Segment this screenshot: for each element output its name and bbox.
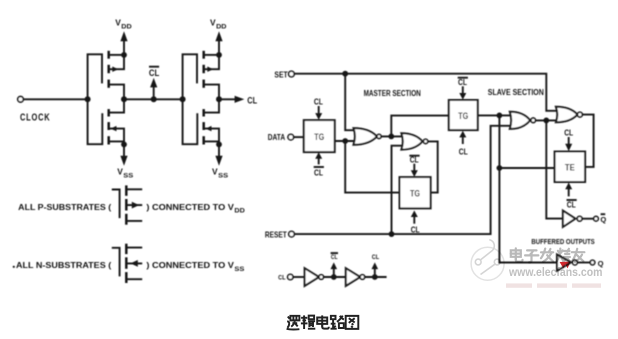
svg-text:DD: DD [234,208,245,215]
svg-text:ALL P-SUBSTRATES (: ALL P-SUBSTRATES ( [18,202,111,212]
svg-text:Q: Q [600,215,606,224]
svg-text:CL: CL [567,201,576,210]
svg-text:CLOCK: CLOCK [20,112,50,123]
svg-text:CL: CL [149,68,160,78]
svg-text:ALL N-SUBSTRATES (: ALL N-SUBSTRATES ( [16,260,111,270]
svg-text:CL: CL [314,98,323,107]
svg-text:CL: CL [372,254,379,261]
svg-text:CL: CL [410,155,419,164]
svg-text:SET: SET [274,70,287,79]
svg-text:CL: CL [459,147,468,156]
svg-text:SS: SS [234,266,245,273]
svg-text:DATA: DATA [268,133,285,142]
svg-text:MASTER SECTION: MASTER SECTION [364,89,421,98]
svg-text:CL: CL [278,275,285,282]
svg-text:TG: TG [314,131,324,142]
svg-text:CL: CL [331,254,338,261]
svg-text:CL: CL [411,226,420,235]
svg-text:TE: TE [565,162,575,173]
svg-text:CL: CL [564,128,573,137]
svg-text:www.elecfans.com: www.elecfans.com [508,266,602,279]
svg-text:RESET: RESET [265,230,287,239]
svg-text:TG: TG [458,110,468,121]
svg-text:CL: CL [314,168,323,177]
svg-text:) CONNECTED TO V: ) CONNECTED TO V [146,202,234,212]
svg-text:) CONNECTED TO V: ) CONNECTED TO V [146,260,234,270]
svg-text:SLAVE SECTION: SLAVE SECTION [488,88,544,97]
svg-text:CL: CL [458,78,467,87]
svg-text:TG: TG [410,187,420,198]
svg-text:BUFFERED OUTPUTS: BUFFERED OUTPUTS [531,237,594,246]
svg-text:CL: CL [247,95,257,105]
